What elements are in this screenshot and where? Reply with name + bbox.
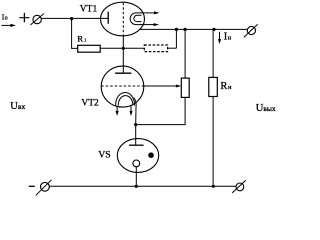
svg-text:Rн: Rн bbox=[220, 81, 232, 92]
svg-text:VS: VS bbox=[98, 150, 111, 161]
svg-text:VT2: VT2 bbox=[81, 98, 99, 108]
svg-text:Iн: Iн bbox=[224, 31, 232, 42]
svg-text:R1: R1 bbox=[77, 33, 86, 43]
svg-text:Uвх: Uвх bbox=[10, 101, 25, 112]
svg-text:Uвых: Uвых bbox=[256, 103, 276, 114]
svg-text:Iо: Iо bbox=[2, 13, 8, 22]
svg-text:VT1: VT1 bbox=[80, 4, 98, 14]
